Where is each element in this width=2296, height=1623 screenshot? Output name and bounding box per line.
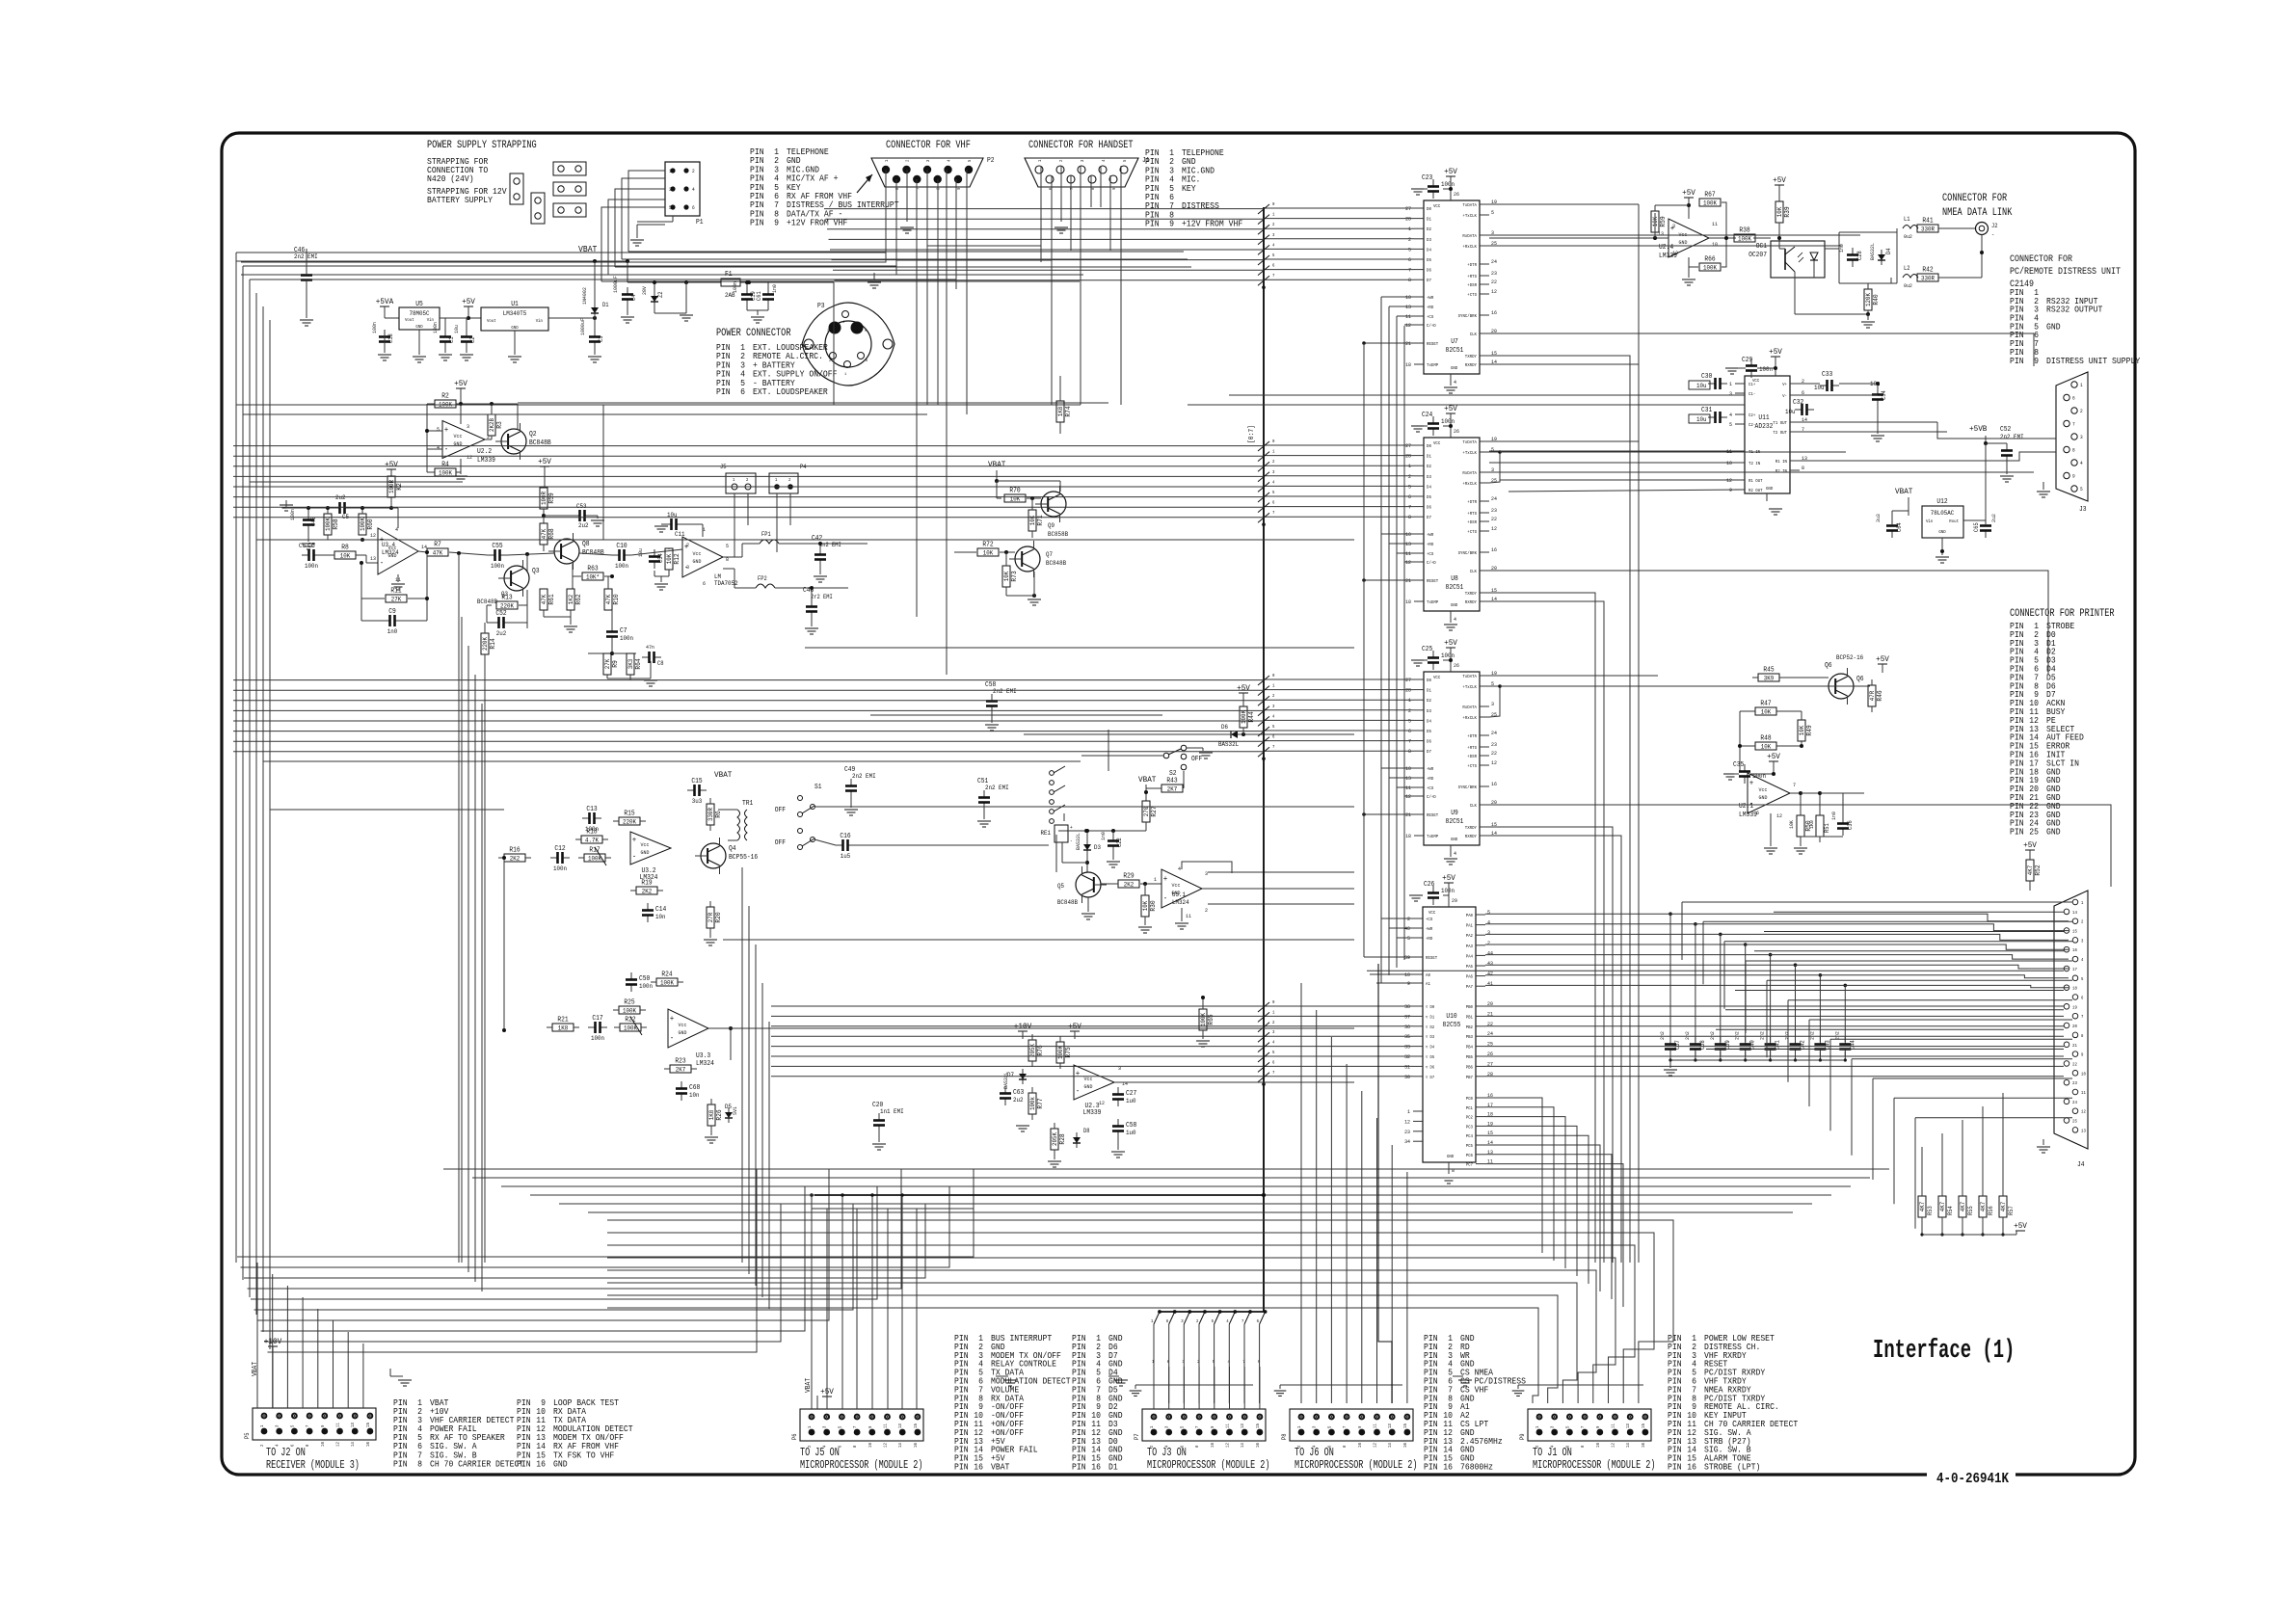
svg-text:C9: C9: [388, 608, 396, 616]
svg-text:RxDATA: RxDATA: [1462, 705, 1477, 710]
svg-text:PA4: PA4: [1466, 953, 1474, 959]
svg-text:C45: C45: [310, 517, 317, 526]
svg-text:8: 8: [1452, 1167, 1455, 1174]
svg-text:100n: 100n: [1441, 181, 1455, 188]
svg-text:22: 22: [1491, 750, 1497, 757]
svg-text:Q3: Q3: [532, 568, 540, 575]
svg-text:25: 25: [2029, 828, 2039, 838]
svg-text:+5V: +5V: [454, 379, 468, 388]
svg-text:7: 7: [915, 187, 921, 190]
svg-text:9: 9: [2072, 474, 2075, 480]
svg-text:12: 12: [1491, 759, 1497, 766]
svg-text:16: 16: [1491, 309, 1497, 316]
svg-text:3: 3: [2081, 938, 2084, 944]
svg-text:PIN: PIN: [716, 387, 731, 397]
svg-text:TxDATA: TxDATA: [1462, 674, 1477, 679]
svg-text:1K8: 1K8: [558, 1025, 569, 1032]
svg-text:13: 13: [370, 555, 376, 562]
svg-text:4: 4: [1226, 1318, 1229, 1324]
svg-text:2u2: 2u2: [1990, 514, 1997, 522]
svg-text:12: 12: [883, 1443, 889, 1448]
svg-text:MICROPROCESSOR (MODULE 2): MICROPROCESSOR (MODULE 2): [1533, 1458, 1656, 1472]
svg-text:1: 1: [2080, 383, 2083, 388]
svg-text:5: 5: [726, 543, 729, 549]
svg-text:TO J6 ON: TO J6 ON: [1295, 1446, 1334, 1459]
svg-text:1N4002: 1N4002: [581, 287, 588, 305]
svg-text:3: 3: [1672, 223, 1675, 229]
svg-text:220K: 220K: [623, 819, 636, 826]
svg-text:4K7: 4K7: [1919, 1202, 1926, 1212]
svg-text:1u0: 1u0: [1126, 1098, 1136, 1104]
svg-text:PIN: PIN: [393, 1459, 408, 1469]
svg-text:R63: R63: [587, 566, 598, 573]
svg-text:R53: R53: [1927, 1206, 1934, 1215]
svg-text:8: 8: [2072, 448, 2075, 454]
svg-text:6: 6: [894, 187, 900, 190]
svg-text:U11: U11: [1758, 414, 1769, 422]
svg-text:2: 2: [788, 477, 791, 483]
svg-text:PB4: PB4: [1466, 1045, 1474, 1051]
svg-text:8: 8: [2081, 1033, 2084, 1039]
svg-text:+DTR: +DTR: [1467, 733, 1477, 739]
svg-text:205K: 205K: [1029, 1044, 1036, 1057]
svg-text:S1: S1: [814, 784, 822, 791]
svg-text:VCC: VCC: [1433, 203, 1441, 209]
svg-text:D0: D0: [1427, 206, 1431, 212]
svg-text:13: 13: [1387, 1423, 1393, 1428]
svg-text:3: 3: [1550, 1425, 1556, 1428]
svg-text:RESET: RESET: [1427, 341, 1438, 347]
svg-text:7: 7: [1272, 744, 1275, 750]
svg-text:7: 7: [2081, 1014, 2084, 1020]
svg-text:6: 6: [1272, 263, 1275, 269]
svg-text:9: 9: [1169, 220, 1174, 229]
svg-text:R27: R27: [1151, 806, 1159, 816]
svg-text:A1: A1: [1426, 981, 1430, 987]
svg-text:5: 5: [1491, 209, 1494, 216]
svg-text:7: 7: [852, 1425, 858, 1428]
svg-text:16: 16: [1402, 1443, 1408, 1448]
svg-text:T1 OUT: T1 OUT: [1773, 420, 1787, 426]
svg-text:13: 13: [1240, 1423, 1245, 1428]
svg-text:2: 2: [2081, 919, 2084, 925]
svg-text:1n0: 1n0: [387, 628, 398, 635]
svg-text:4: 4: [1272, 1040, 1275, 1046]
svg-text:3: 3: [686, 564, 689, 571]
svg-text:26: 26: [1454, 662, 1459, 669]
svg-text:3: 3: [925, 159, 931, 162]
svg-text:C50: C50: [639, 975, 650, 983]
svg-text:7: 7: [1069, 187, 1075, 190]
svg-text:5: 5: [1272, 1050, 1275, 1055]
svg-text:9: 9: [1595, 1425, 1601, 1428]
svg-text:C39: C39: [1724, 1040, 1731, 1050]
svg-text:PA2: PA2: [1466, 933, 1474, 939]
svg-text:C2: C2: [469, 336, 476, 343]
svg-text:NMEA DATA LINK: NMEA DATA LINK: [1942, 207, 2013, 219]
svg-text:17: 17: [2072, 967, 2077, 972]
svg-text:R13: R13: [501, 595, 512, 602]
svg-text:-: -: [670, 1034, 674, 1043]
svg-text:+5V: +5V: [1444, 638, 1458, 648]
svg-text:10: 10: [1357, 1443, 1363, 1448]
svg-text:-: -: [632, 853, 636, 862]
svg-text:14: 14: [350, 1442, 356, 1447]
svg-text:16: 16: [1491, 546, 1497, 553]
svg-text:D2: D2: [1427, 464, 1431, 469]
svg-text:12: 12: [2081, 1109, 2086, 1115]
svg-text:+: +: [1749, 780, 1753, 788]
svg-text:C37: C37: [1674, 1040, 1681, 1050]
svg-text:6: 6: [2072, 396, 2075, 402]
svg-text:120K: 120K: [1865, 293, 1872, 306]
svg-text:TXRDY: TXRDY: [1465, 591, 1477, 597]
svg-text:+RD: +RD: [1426, 936, 1433, 942]
svg-text:U2.2: U2.2: [477, 448, 492, 456]
svg-text:7: 7: [1580, 1425, 1586, 1428]
svg-text:11: 11: [1186, 913, 1192, 919]
svg-text:PC2: PC2: [1466, 1115, 1474, 1121]
svg-text:GND: GND: [1766, 486, 1774, 492]
svg-text:N420 (24V): N420 (24V): [427, 174, 474, 184]
svg-text:5: 5: [1272, 724, 1275, 730]
svg-text:2n2: 2n2: [1833, 1031, 1840, 1040]
svg-text:R11: R11: [390, 588, 401, 596]
svg-text:C65: C65: [1973, 522, 1980, 532]
svg-text:PB6: PB6: [1466, 1064, 1474, 1070]
svg-text:9: 9: [774, 219, 779, 228]
svg-text:10: 10: [1712, 241, 1718, 248]
svg-text:P1: P1: [696, 219, 704, 226]
svg-text:100n: 100n: [615, 563, 628, 570]
svg-text:+CTS: +CTS: [1467, 763, 1477, 769]
svg-text:C64: C64: [1896, 522, 1903, 532]
svg-text:LM339: LM339: [1083, 1109, 1102, 1117]
svg-text:P2: P2: [987, 157, 995, 165]
svg-text:100n: 100n: [591, 1035, 604, 1042]
svg-text:100K: 100K: [660, 980, 674, 987]
svg-text:D6: D6: [1427, 505, 1431, 511]
svg-text:100n: 100n: [1441, 418, 1455, 425]
svg-text:1K2: 1K2: [568, 595, 574, 605]
svg-text:1: 1: [259, 1424, 265, 1427]
svg-text:3: 3: [2080, 435, 2083, 440]
svg-text:47n: 47n: [646, 644, 654, 651]
svg-text:10: 10: [2081, 1071, 2086, 1077]
svg-text:2: 2: [1487, 940, 1490, 946]
svg-text:J2: J2: [1991, 223, 1998, 229]
svg-text:1: 1: [1272, 1009, 1275, 1015]
svg-text:+DSR: +DSR: [1467, 519, 1477, 525]
svg-text:47K: 47K: [433, 550, 443, 557]
svg-text:PC7: PC7: [1466, 1162, 1474, 1168]
svg-text:100n: 100n: [1441, 888, 1455, 894]
svg-text:-: -: [380, 559, 384, 568]
svg-text:1: 1: [884, 159, 890, 162]
svg-text:25: 25: [2072, 1119, 2077, 1125]
svg-text:+RxCLK: +RxCLK: [1462, 481, 1477, 487]
svg-text:100n: 100n: [432, 322, 439, 333]
svg-text:BC848B: BC848B: [1057, 899, 1078, 906]
svg-text:+5V: +5V: [1773, 175, 1787, 185]
svg-text:GND: GND: [1084, 1083, 1094, 1090]
svg-text:13: 13: [1658, 230, 1664, 237]
svg-text:10K: 10K: [1003, 572, 1010, 582]
svg-text:▽ D2: ▽ D2: [1426, 1025, 1435, 1030]
svg-text:C6: C6: [307, 543, 315, 550]
svg-text:12: 12: [1491, 288, 1497, 295]
svg-text:15: 15: [365, 1423, 371, 1427]
svg-text:C33: C33: [1822, 371, 1832, 379]
svg-text:7: 7: [305, 1424, 310, 1427]
svg-text:R48: R48: [1760, 735, 1771, 743]
svg-text:R23: R23: [675, 1058, 685, 1066]
svg-text:R19: R19: [641, 880, 652, 888]
svg-text:Vout: Vout: [405, 317, 414, 323]
svg-text:3: 3: [1272, 1029, 1275, 1035]
svg-text:C24: C24: [1422, 412, 1432, 419]
svg-text:2: 2: [1058, 159, 1064, 162]
svg-text:10K: 10K: [983, 550, 994, 557]
svg-text:3: 3: [1205, 870, 1208, 877]
svg-text:BC848B: BC848B: [477, 599, 497, 605]
svg-text:C10: C10: [616, 543, 627, 550]
svg-text:J3: J3: [2079, 506, 2087, 514]
svg-text:+5V: +5V: [1442, 873, 1456, 883]
svg-text:C/+D: C/+D: [1427, 794, 1436, 800]
svg-text:P3: P3: [817, 303, 825, 310]
svg-text:D7: D7: [1427, 278, 1431, 283]
svg-text:U9: U9: [1451, 810, 1458, 817]
svg-text:MICROPROCESSOR (MODULE 2): MICROPROCESSOR (MODULE 2): [1147, 1458, 1270, 1472]
svg-text:P4: P4: [800, 464, 807, 470]
svg-text:5: 5: [967, 159, 973, 162]
svg-text:3: 3: [1487, 929, 1490, 936]
svg-text:1K8: 1K8: [1057, 407, 1064, 417]
svg-text:SYNC/BRK: SYNC/BRK: [1458, 313, 1478, 319]
svg-text:+TxCLK: +TxCLK: [1462, 213, 1477, 219]
svg-text:BAS32L: BAS32L: [1869, 243, 1876, 260]
svg-text:U7: U7: [1451, 338, 1458, 346]
svg-text:+TxCLK: +TxCLK: [1462, 450, 1477, 456]
svg-text:-: -: [444, 445, 448, 454]
svg-text:10K: 10K: [666, 554, 673, 565]
svg-text:+: +: [444, 426, 448, 435]
svg-text:PC4: PC4: [1466, 1133, 1474, 1139]
svg-text:+RD: +RD: [1427, 305, 1434, 310]
svg-text:PA6: PA6: [1466, 974, 1474, 980]
svg-text:2: 2: [1272, 1020, 1275, 1025]
svg-text:D4: D4: [1427, 247, 1431, 253]
svg-text:GND: GND: [1759, 794, 1769, 801]
svg-text:100K: 100K: [623, 1008, 636, 1015]
svg-text:F1: F1: [725, 271, 733, 279]
svg-text:19: 19: [2072, 1004, 2077, 1010]
svg-text:10K: 10K: [1761, 709, 1772, 716]
svg-text:2n2 EMI: 2n2 EMI: [993, 688, 1017, 695]
svg-text:T2 OUT: T2 OUT: [1773, 430, 1787, 436]
svg-text:5: 5: [1487, 909, 1490, 916]
svg-text:330R: 330R: [707, 808, 714, 821]
svg-text:R77: R77: [1037, 1098, 1045, 1108]
svg-text:U12: U12: [1936, 498, 1947, 506]
svg-text:TO J1 ON: TO J1 ON: [1533, 1446, 1572, 1459]
svg-text:R7: R7: [434, 542, 441, 549]
svg-text:PC6: PC6: [1466, 1153, 1474, 1158]
svg-text:16: 16: [1091, 1463, 1101, 1473]
svg-text:10K: 10K: [1029, 516, 1036, 526]
svg-text:2K2B: 2K2B: [489, 418, 495, 432]
svg-text:Q2: Q2: [529, 431, 537, 439]
svg-text:3: 3: [669, 187, 672, 193]
svg-text:BC858B: BC858B: [1048, 531, 1068, 538]
svg-text:R30: R30: [1150, 900, 1158, 911]
svg-text:205K: 205K: [1052, 1132, 1058, 1146]
svg-text:CLK: CLK: [1470, 803, 1478, 809]
svg-text:6: 6: [1756, 810, 1759, 816]
svg-text:22: 22: [1491, 279, 1497, 285]
svg-text:3K9: 3K9: [1764, 676, 1775, 682]
svg-text:28V: 28V: [641, 285, 648, 295]
svg-text:1K8: 1K8: [708, 1110, 715, 1121]
svg-text:PB5: PB5: [1466, 1054, 1474, 1060]
svg-text:10K: 10K: [1761, 744, 1772, 751]
svg-text:9: 9: [320, 1424, 326, 1427]
svg-text:Interface (1): Interface (1): [1873, 1337, 2015, 1366]
svg-text:VCC: VCC: [1433, 675, 1441, 680]
svg-text:▽ D3: ▽ D3: [1426, 1035, 1435, 1040]
svg-text:5: 5: [1326, 1425, 1332, 1428]
svg-text:C13: C13: [586, 806, 597, 813]
svg-text:100n: 100n: [732, 281, 738, 293]
svg-text:9: 9: [2081, 1052, 2084, 1058]
svg-text:LM340T5: LM340T5: [503, 310, 527, 317]
svg-text:+CS: +CS: [1427, 785, 1434, 791]
svg-text:12: 12: [1404, 1118, 1410, 1125]
svg-text:CONNECTOR FOR: CONNECTOR FOR: [2010, 254, 2072, 265]
svg-text:VCC: VCC: [1433, 440, 1441, 446]
svg-text:BCP52-16: BCP52-16: [1836, 654, 1863, 661]
svg-text:100K: 100K: [1703, 265, 1717, 272]
svg-text:6: 6: [1257, 1318, 1260, 1324]
svg-text:P6: P6: [791, 1433, 798, 1440]
svg-text:+CTS: +CTS: [1467, 529, 1477, 535]
svg-text:P9: P9: [1519, 1433, 1526, 1440]
svg-text:C55: C55: [492, 543, 502, 550]
svg-text:2n2: 2n2: [1659, 1031, 1666, 1040]
svg-text:9: 9: [956, 187, 962, 190]
svg-text:+WR: +WR: [1427, 532, 1434, 538]
svg-text:D4: D4: [1885, 248, 1892, 254]
svg-text:C25: C25: [1422, 646, 1432, 653]
svg-text:Q6: Q6: [1825, 662, 1832, 670]
svg-text:8: 8: [852, 1445, 858, 1448]
svg-text:C27: C27: [1126, 1090, 1136, 1098]
svg-text:18: 18: [1405, 361, 1411, 368]
svg-text:+: +: [1163, 875, 1167, 884]
svg-text:44: 44: [1487, 949, 1494, 956]
svg-text:+: +: [632, 837, 636, 845]
svg-text:15: 15: [2072, 929, 2077, 935]
svg-text:12: 12: [1099, 1100, 1105, 1106]
svg-text:OFF: OFF: [775, 839, 786, 847]
svg-text:4K7: 4K7: [2000, 1202, 2007, 1212]
svg-text:D7: D7: [1427, 749, 1431, 755]
svg-text:C8: C8: [657, 660, 664, 667]
svg-text:Q8: Q8: [582, 541, 590, 548]
svg-text:Vcc: Vcc: [454, 433, 463, 439]
svg-text:100n: 100n: [1759, 366, 1773, 373]
svg-text:D6: D6: [1427, 268, 1431, 274]
svg-text:78L05AC: 78L05AC: [1931, 510, 1955, 517]
svg-text:+5V: +5V: [2014, 1221, 2028, 1231]
svg-text:+: +: [1070, 825, 1073, 831]
svg-text:GND: GND: [2046, 322, 2061, 332]
svg-text:Q4: Q4: [729, 845, 736, 853]
svg-text:POWER CONNECTOR: POWER CONNECTOR: [716, 328, 791, 339]
svg-text:3: 3: [467, 423, 469, 430]
svg-text:-: -: [1163, 894, 1167, 903]
svg-text:R4: R4: [441, 462, 449, 469]
svg-text:R59: R59: [548, 492, 556, 503]
svg-text:Rout: Rout: [1949, 519, 1959, 524]
svg-text:8: 8: [417, 1459, 422, 1469]
svg-text:8: 8: [1166, 1318, 1169, 1324]
svg-text:100n: 100n: [553, 865, 567, 872]
svg-text:D4: D4: [1427, 484, 1431, 490]
svg-text:10K: 10K: [1776, 207, 1783, 218]
svg-text:GND: GND: [415, 324, 423, 330]
svg-text:4.7K: 4.7K: [585, 838, 599, 844]
svg-text:C36: C36: [1847, 820, 1854, 830]
svg-text:U10: U10: [1446, 1013, 1456, 1021]
svg-text:4: 4: [1272, 713, 1275, 719]
svg-text:+5VA: +5VA: [376, 297, 394, 306]
svg-text:8: 8: [1194, 1445, 1200, 1448]
svg-text:23: 23: [1404, 1129, 1410, 1135]
svg-text:3: 3: [1272, 232, 1275, 238]
svg-text:R40: R40: [1873, 294, 1881, 305]
svg-text:15: 15: [1641, 1423, 1646, 1428]
svg-text:FP1: FP1: [761, 531, 771, 538]
svg-text:TXRDY: TXRDY: [1465, 825, 1477, 831]
svg-text:1: 1: [807, 1425, 813, 1428]
svg-text:5: 5: [289, 1424, 295, 1427]
svg-text:VCC: VCC: [1428, 910, 1436, 916]
svg-text:23: 23: [2072, 1080, 2077, 1086]
svg-text:0u2: 0u2: [1904, 233, 1912, 240]
svg-text:GND: GND: [553, 1459, 568, 1469]
svg-text:L2: L2: [1904, 265, 1910, 272]
svg-text:R46: R46: [1877, 690, 1884, 701]
svg-text:RECEIVER (MODULE 3): RECEIVER (MODULE 3): [266, 1458, 360, 1472]
svg-text:D1: D1: [602, 302, 609, 308]
svg-text:PIN: PIN: [517, 1459, 531, 1469]
svg-text:LM: LM: [714, 573, 721, 580]
svg-text:47K: 47K: [541, 529, 547, 540]
svg-text:LM324: LM324: [696, 1060, 714, 1068]
svg-text:100n: 100n: [305, 563, 318, 570]
svg-text:C14: C14: [655, 906, 666, 914]
svg-text:5: 5: [1179, 1425, 1185, 1428]
svg-text:270: 270: [1143, 807, 1150, 817]
svg-text:3: 3: [1729, 390, 1732, 397]
svg-text:D3: D3: [1427, 237, 1431, 243]
svg-text:3u3: 3u3: [692, 798, 703, 805]
svg-text:R55: R55: [1967, 1206, 1974, 1215]
svg-text:PIN: PIN: [750, 219, 764, 228]
svg-text:OC1: OC1: [1756, 243, 1767, 251]
